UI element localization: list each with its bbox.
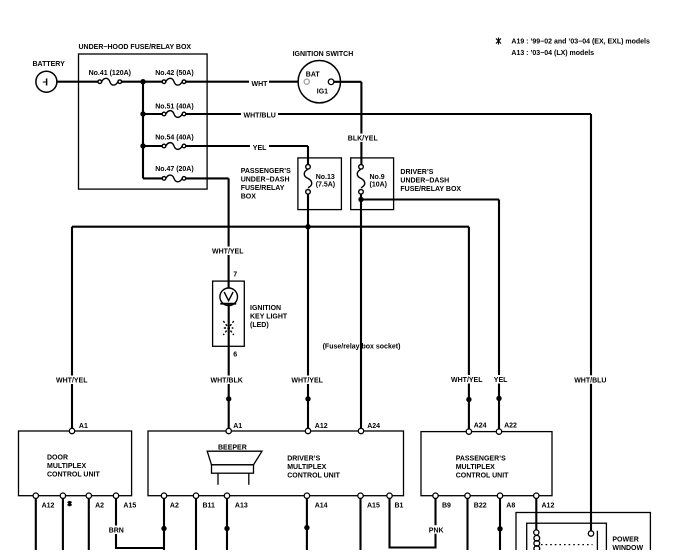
wire battery to fuse No.41 xyxy=(56,81,98,83)
relay coil xyxy=(534,530,539,535)
svg-text:UNDER−DASH: UNDER−DASH xyxy=(400,178,449,185)
wire door A12 xyxy=(35,498,37,550)
wire WHT/BLU : fuse No.51 to right corner xyxy=(186,113,591,115)
svg-text:A14: A14 xyxy=(315,503,328,510)
svg-text:WHT: WHT xyxy=(252,81,269,88)
svg-text:A2: A2 xyxy=(95,503,104,510)
node bus junction at fuse No.13 output xyxy=(305,224,310,229)
svg-text:WINDOW: WINDOW xyxy=(612,545,643,550)
svg-text:WHT/BLK: WHT/BLK xyxy=(211,378,243,385)
svg-text:A8: A8 xyxy=(506,503,515,510)
svg-text:IGNITION: IGNITION xyxy=(250,305,281,312)
svg-text:CONTROL UNIT: CONTROL UNIT xyxy=(47,472,100,479)
label YEL (horizontal run) xyxy=(250,143,269,152)
wire YEL vertical down to passenger's A22 xyxy=(498,200,500,430)
svg-text:CONTROL UNIT: CONTROL UNIT xyxy=(456,473,509,480)
label BRN xyxy=(108,526,125,535)
svg-text:A19 : ’99−02 and ’03−04 (EX, E: A19 : ’99−02 and ’03−04 (EX, EXL) models xyxy=(511,39,650,46)
wire driver B11 xyxy=(195,498,197,550)
power window relay inner box xyxy=(527,523,607,551)
svg-text:A1: A1 xyxy=(233,423,242,430)
wire WHT/YEL main bus xyxy=(72,226,469,228)
wire YEL : fuse No.54 to corner xyxy=(186,145,308,147)
fuse No.13 (7.5A) xyxy=(304,165,312,195)
battery B1 xyxy=(36,71,57,92)
svg-text:6: 6 xyxy=(233,351,237,358)
svg-text:A22: A22 xyxy=(504,423,517,430)
svg-text:PNK: PNK xyxy=(429,527,444,534)
wire WHT/YEL vertical fuse No.47 to ignition key light pin 7 xyxy=(228,178,230,288)
svg-text:A24: A24 xyxy=(367,423,380,430)
driver's multiplex control unit box xyxy=(148,431,404,496)
svg-text:No.51 (40A): No.51 (40A) xyxy=(155,103,194,110)
svg-text:POWER: POWER xyxy=(612,537,638,544)
LED light rays xyxy=(223,321,234,335)
label WHT/BLK on driver A1 wire xyxy=(209,376,245,385)
fuse box No.9 (driver's under-dash) xyxy=(351,158,394,210)
svg-text:A2: A2 xyxy=(170,503,179,510)
ignition BAT terminal xyxy=(304,79,309,84)
svg-text:UNDER−DASH: UNDER−DASH xyxy=(241,176,290,183)
wire BLK/YEL vertical to fuse No.9 xyxy=(360,82,362,165)
node splice on driver A1 wire xyxy=(226,396,231,401)
fuse No.54 (40A) xyxy=(162,143,186,150)
node splice on driver A12 wire xyxy=(305,396,310,401)
power window relay outer box xyxy=(516,513,650,552)
wire row4 bus to fuse No.47 xyxy=(143,177,162,179)
wire fuse No.13 output down to driver's A12 xyxy=(307,194,309,429)
fuse No.51 (40A) xyxy=(162,111,186,118)
label WHT/YEL on driver A12 wire xyxy=(290,376,325,385)
svg-text:(10A): (10A) xyxy=(370,181,388,188)
svg-text:(LED): (LED) xyxy=(250,322,269,329)
svg-text:No.42 (50A): No.42 (50A) xyxy=(155,70,194,77)
LED symbol xyxy=(220,288,238,306)
label WHT/YEL (above ignition key light) xyxy=(211,247,247,256)
node splice on driver A2 wire xyxy=(161,526,166,531)
relay contact bar xyxy=(596,531,598,550)
svg-text:DRIVER’S: DRIVER’S xyxy=(400,169,433,176)
svg-text:BLK/YEL: BLK/YEL xyxy=(348,136,379,143)
node bus-junction row1 xyxy=(140,79,145,84)
svg-text:FUSE/RELAY BOX: FUSE/RELAY BOX xyxy=(400,186,461,193)
svg-text:KEY LIGHT: KEY LIGHT xyxy=(250,314,288,321)
svg-text:WHT/YEL: WHT/YEL xyxy=(291,378,323,385)
label PNK xyxy=(428,525,445,534)
wire fuse No.41 to fuse No.42 through bus junction xyxy=(122,81,163,83)
svg-text:B22: B22 xyxy=(474,503,487,510)
under-hood fuse/relay box xyxy=(79,54,208,189)
wire row2 bus to fuse No.51 xyxy=(143,113,162,115)
svg-text:BEEPER: BEEPER xyxy=(218,445,247,452)
svg-text:WHT/YEL: WHT/YEL xyxy=(56,378,88,385)
svg-text:WHT/YEL: WHT/YEL xyxy=(451,377,483,384)
svg-text:A15: A15 xyxy=(123,503,136,510)
svg-text:A13: A13 xyxy=(235,503,248,510)
fuse No.42 (50A) xyxy=(162,78,186,85)
door multiplex control unit box xyxy=(19,431,132,496)
label YEL on passenger A22 wire xyxy=(492,375,509,384)
passenger's multiplex control unit box xyxy=(421,432,552,496)
label WHT/BLU (horizontal run) xyxy=(241,110,278,119)
wire WHT/BLU vertical down to power window relay xyxy=(590,114,592,531)
svg-text:7: 7 xyxy=(233,271,237,278)
svg-text:A12: A12 xyxy=(42,503,55,510)
wire passenger A12 to relay coil xyxy=(535,498,537,530)
svg-text:YEL: YEL xyxy=(494,377,508,384)
wire WHT : fuse No.42 to ignition switch BAT xyxy=(186,81,304,83)
fuse No.47 (20A) xyxy=(162,175,186,182)
wire door star xyxy=(62,498,64,550)
node fuse No.9 tap xyxy=(358,197,363,202)
svg-text:A15: A15 xyxy=(367,503,380,510)
wire driver A13 xyxy=(226,498,228,550)
wire driver A2 xyxy=(163,498,165,550)
svg-text:No.9: No.9 xyxy=(370,174,385,181)
node splice on driver A13 wire xyxy=(224,526,229,531)
svg-text:DRIVER’S: DRIVER’S xyxy=(287,456,320,463)
svg-text:B1: B1 xyxy=(395,503,404,510)
connector circles bottom edges xyxy=(33,493,539,498)
svg-text:No.41 (120A): No.41 (120A) xyxy=(89,70,131,77)
fuse No.41 (120A) xyxy=(98,78,122,85)
wire WHT/YEL right vertical down to passenger's A24 xyxy=(468,227,470,429)
svg-text:IGNITION SWITCH: IGNITION SWITCH xyxy=(293,51,354,58)
bus vertical inside under-hood fuse box xyxy=(142,82,144,179)
svg-text:(7.5A): (7.5A) xyxy=(316,181,335,188)
ignition switch xyxy=(298,60,340,102)
relay contact terminal xyxy=(588,531,593,536)
relay dotted link xyxy=(541,544,593,546)
svg-text:A1: A1 xyxy=(79,423,88,430)
svg-text:B9: B9 xyxy=(442,503,451,510)
wire passenger B22 xyxy=(466,498,468,550)
label WHT/YEL on passenger A24 wire xyxy=(450,375,485,384)
svg-text:MULTIPLEX: MULTIPLEX xyxy=(456,464,495,471)
wire YEL vertical into fuse No.13 xyxy=(307,146,309,165)
wire door A15 BRN xyxy=(116,498,164,548)
wire IG1 to corner xyxy=(334,81,362,83)
svg-text:No.13: No.13 xyxy=(316,174,335,181)
svg-text:BRN: BRN xyxy=(109,528,124,535)
svg-text:CONTROL UNIT: CONTROL UNIT xyxy=(287,473,340,480)
wire row3 bus to fuse No.54 xyxy=(143,145,162,147)
svg-text:WHT/YEL: WHT/YEL xyxy=(212,249,244,256)
svg-text:BAT: BAT xyxy=(306,72,321,79)
wire fuse No.47 output to corner xyxy=(186,177,229,179)
svg-text:YEL: YEL xyxy=(253,145,267,152)
node bus-junction row2 xyxy=(140,111,145,116)
node splice on passenger A24 wire xyxy=(466,397,471,402)
svg-text:A24: A24 xyxy=(474,423,487,430)
ignition IG1 terminal xyxy=(328,79,334,85)
svg-text:BATTERY: BATTERY xyxy=(33,61,66,68)
node bus-junction row3 xyxy=(140,143,145,148)
svg-text:PASSENGER’S: PASSENGER’S xyxy=(456,456,506,463)
svg-text:DOOR: DOOR xyxy=(47,455,68,462)
svg-text:(Fuse/relay box socket): (Fuse/relay box socket) xyxy=(323,344,401,351)
svg-text:FUSE/RELAY: FUSE/RELAY xyxy=(241,185,285,192)
wire door A2 xyxy=(88,498,90,550)
fuse No.9 (10A) xyxy=(357,165,365,195)
svg-text:BOX: BOX xyxy=(241,193,257,200)
svg-text:A12: A12 xyxy=(542,503,555,510)
node splice on passenger A22 wire xyxy=(496,396,501,401)
svg-text:A12: A12 xyxy=(315,423,328,430)
svg-text:No.54 (40A): No.54 (40A) xyxy=(155,135,194,142)
node splice on passenger A8 wire xyxy=(497,526,502,531)
svg-text:MULTIPLEX: MULTIPLEX xyxy=(287,464,326,471)
svg-text:A13 : ’03−04 (LX) models: A13 : ’03−04 (LX) models xyxy=(511,50,594,57)
label WHT xyxy=(249,79,269,88)
wire driver A15 xyxy=(359,498,361,550)
note star xyxy=(496,38,501,45)
node splice on driver A14 wire xyxy=(304,525,309,530)
label WHT/YEL on door A1 wire xyxy=(55,376,90,385)
ignition key light (LED) box xyxy=(213,281,245,346)
wire driver B1 to passenger B9 xyxy=(390,498,436,547)
wire passenger A8 xyxy=(499,498,501,550)
wire fuse No.9 tap to right corner xyxy=(361,198,499,200)
svg-text:MULTIPLEX: MULTIPLEX xyxy=(47,463,86,470)
svg-text:IG1: IG1 xyxy=(317,89,328,96)
label WHT/BLU on power window wire xyxy=(573,375,608,384)
svg-text:WHT/BLU: WHT/BLU xyxy=(574,378,606,385)
wire through LED xyxy=(228,304,230,429)
svg-text:PASSENGER’S: PASSENGER’S xyxy=(241,168,291,175)
svg-text:B11: B11 xyxy=(203,503,216,510)
wire WHT/YEL left vertical down to door A1 xyxy=(71,227,73,429)
fuse box No.13 (passenger's under-dash) xyxy=(298,158,342,210)
wire fuse No.9 output down to driver's A24 xyxy=(360,194,362,429)
svg-text:WHT/BLU: WHT/BLU xyxy=(244,112,276,119)
wire driver A14 xyxy=(306,498,308,550)
svg-text:No.47 (20A): No.47 (20A) xyxy=(155,166,194,173)
svg-text:UNDER−HOOD FUSE/RELAY BOX: UNDER−HOOD FUSE/RELAY BOX xyxy=(79,44,192,51)
connector circles top edges xyxy=(69,428,501,434)
label BLK/YEL xyxy=(347,134,375,143)
